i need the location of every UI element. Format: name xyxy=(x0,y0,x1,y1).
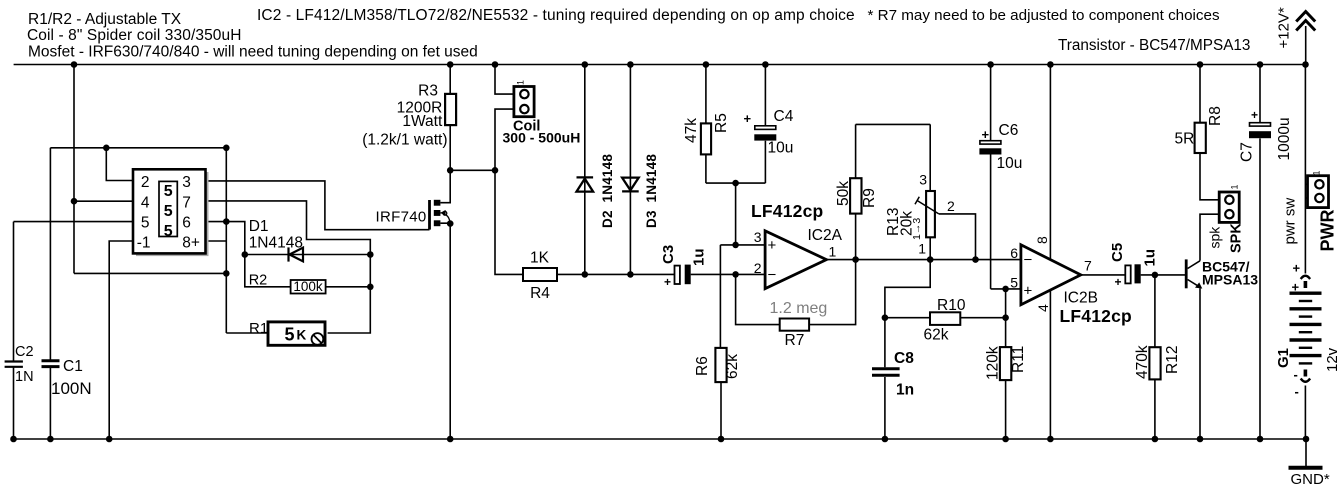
svg-text:2: 2 xyxy=(141,174,150,191)
wire R7 to output xyxy=(809,260,856,325)
svg-text:R1: R1 xyxy=(249,320,268,337)
wire collector to SPK xyxy=(1200,214,1219,261)
wire IC2B output xyxy=(1081,274,1126,276)
wire V1 vertical pin8 supply xyxy=(226,148,269,333)
svg-text:6: 6 xyxy=(1010,245,1018,261)
svg-text:R10: R10 xyxy=(937,297,966,314)
svg-text:pwr sw: pwr sw xyxy=(1282,198,1299,245)
wire pin6 node descent xyxy=(885,260,930,368)
svg-text:4: 4 xyxy=(1035,304,1051,312)
svg-text:1000u: 1000u xyxy=(1276,117,1293,160)
svg-text:2: 2 xyxy=(947,198,955,214)
wire C7 branch xyxy=(1259,65,1261,440)
svg-text:1n: 1n xyxy=(896,382,914,399)
resistor R5 xyxy=(701,123,711,154)
wire R9 riser xyxy=(856,124,931,259)
svg-text:+: + xyxy=(1115,275,1122,289)
svg-text:−: − xyxy=(768,267,777,284)
connector J3 PWR xyxy=(1308,176,1329,208)
connector J1 coil xyxy=(514,87,534,117)
svg-text:R3: R3 xyxy=(418,83,438,100)
wire R13 wiper to output row xyxy=(939,214,976,260)
wire IC2B pin4 ground xyxy=(1049,291,1051,439)
IC U1 555 inner label box xyxy=(159,181,177,236)
wire R10 right xyxy=(960,317,1005,319)
wire +12V top rail xyxy=(14,64,1306,66)
svg-text:+: + xyxy=(664,275,671,289)
resistor R9 xyxy=(850,178,861,213)
svg-text:R5: R5 xyxy=(713,113,730,133)
svg-text:+: + xyxy=(768,237,777,254)
svg-text:R2: R2 xyxy=(249,273,268,289)
capacitor C6 xyxy=(979,141,1001,155)
wire pin4 feed xyxy=(74,200,133,202)
capacitor C7 xyxy=(1249,123,1271,139)
svg-text:3: 3 xyxy=(754,229,762,245)
svg-text:−: − xyxy=(1024,252,1033,269)
wire R2 row xyxy=(245,255,370,287)
svg-text:-: - xyxy=(1295,384,1299,399)
svg-text:1: 1 xyxy=(516,80,526,85)
svg-text:3: 3 xyxy=(919,172,927,188)
svg-text:47k: 47k xyxy=(683,118,700,143)
svg-text:Transistor - BC547/MPSA13: Transistor - BC547/MPSA13 xyxy=(1058,37,1250,54)
svg-text:R1/R2 - Adjustable TX: R1/R2 - Adjustable TX xyxy=(28,11,182,28)
capacitor C1 xyxy=(42,361,60,367)
potentiometer R13 20k xyxy=(926,191,935,237)
wire battery to ground rail xyxy=(1304,386,1306,440)
svg-text:1: 1 xyxy=(918,241,926,257)
svg-text:C7: C7 xyxy=(1239,142,1256,162)
capacitor C3 xyxy=(675,265,691,285)
wire pin1 feed xyxy=(109,241,133,439)
wire pin6 feed to D1 node xyxy=(206,222,245,255)
wire C3 to pin2 xyxy=(691,273,765,275)
wire R6 to ground xyxy=(720,382,722,439)
svg-text:(1.2k/1 watt): (1.2k/1 watt) xyxy=(362,132,447,149)
wire R8 top xyxy=(1199,65,1201,123)
svg-text:K: K xyxy=(297,328,307,343)
svg-text:8: 8 xyxy=(1034,236,1050,244)
wire coil top feed xyxy=(495,65,514,95)
svg-text:5: 5 xyxy=(141,215,150,232)
svg-text:D1: D1 xyxy=(249,218,269,235)
wire R13 bottom xyxy=(929,237,931,259)
svg-text:+12V*: +12V* xyxy=(1276,7,1293,48)
svg-text:Coil - 8" Spider coil 330/350u: Coil - 8" Spider coil 330/350uH xyxy=(27,27,242,44)
svg-text:LF412cp: LF412cp xyxy=(751,201,823,221)
svg-text:SPK: SPK xyxy=(1229,223,1245,253)
svg-text:5: 5 xyxy=(164,223,173,240)
wire coil bottom drop to R4 xyxy=(495,109,523,274)
svg-text:R11: R11 xyxy=(1010,346,1027,373)
resistor R7 xyxy=(780,319,809,331)
wire R3 bottom to node xyxy=(449,125,451,170)
IC U1 555 timer shadow xyxy=(136,172,209,256)
connector J2 SPK xyxy=(1219,192,1239,222)
svg-text:IC2B: IC2B xyxy=(1064,290,1098,307)
wire R12 branch xyxy=(1154,275,1156,439)
svg-text:5: 5 xyxy=(164,183,173,200)
svg-text:D3 1N4148: D3 1N4148 xyxy=(644,154,659,228)
resistor R10 xyxy=(930,312,960,325)
svg-text:C3: C3 xyxy=(660,245,677,264)
op-amp IC2A xyxy=(765,231,826,289)
svg-text:C1: C1 xyxy=(63,358,83,375)
resistor R11 xyxy=(1000,347,1011,380)
battery G1 xyxy=(1290,293,1322,363)
svg-text:1: 1 xyxy=(1311,170,1321,175)
svg-text:6: 6 xyxy=(182,215,191,232)
resistor R8 xyxy=(1195,123,1206,153)
svg-text:2: 2 xyxy=(754,260,762,276)
svg-text:* R7 may need to be adjusted t: * R7 may need to be adjusted to componen… xyxy=(868,7,1220,24)
wire pin2 to R7 xyxy=(736,274,780,324)
svg-text:-: - xyxy=(1294,367,1298,382)
transistor Q2 BC547 xyxy=(1185,259,1203,288)
capacitor C8 xyxy=(872,369,900,375)
svg-text:GND*: GND* xyxy=(1291,471,1330,488)
wire mosfet source to ground xyxy=(441,223,451,439)
resistor R3 xyxy=(445,94,456,125)
svg-text:IRF740: IRF740 xyxy=(376,209,427,226)
ground symbol GND xyxy=(1289,439,1323,468)
svg-text:IC2A: IC2A xyxy=(808,227,843,244)
wire R5 branch xyxy=(706,65,766,184)
svg-text:120k: 120k xyxy=(985,346,1002,380)
svg-text:1.2 meg: 1.2 meg xyxy=(770,300,828,317)
wiper R13 xyxy=(915,197,939,214)
wire left +12V drop to pin4 and V1 link xyxy=(74,65,226,274)
svg-text:R7: R7 xyxy=(785,332,805,349)
svg-text:C6: C6 xyxy=(999,122,1019,139)
svg-text:C5: C5 xyxy=(1109,243,1126,262)
transistor Q1 IRF740 mosfet xyxy=(430,200,451,230)
wire PWR feed xyxy=(1305,65,1307,274)
svg-text:470k: 470k xyxy=(1134,345,1151,379)
junction dots bottom rail xyxy=(10,436,1309,443)
svg-text:300 - 500uH: 300 - 500uH xyxy=(503,130,581,146)
wire D3 vertical xyxy=(629,65,631,275)
svg-text:-1: -1 xyxy=(137,235,151,252)
wire pin5 feed and C2 riser xyxy=(14,222,134,439)
svg-text:10u: 10u xyxy=(768,140,794,157)
junction dots opamp area xyxy=(732,180,1158,321)
svg-text:spk: spk xyxy=(1207,226,1223,249)
svg-text:100N: 100N xyxy=(51,379,92,398)
svg-text:7: 7 xyxy=(182,194,191,211)
op-amp IC2B xyxy=(1021,245,1081,305)
svg-text:1u: 1u xyxy=(691,248,708,266)
diode D3 xyxy=(622,178,639,192)
svg-text:R4: R4 xyxy=(530,285,550,302)
svg-text:62k: 62k xyxy=(924,327,949,344)
wire emitter to ground xyxy=(1199,288,1201,439)
svg-text:R12: R12 xyxy=(1164,346,1181,374)
svg-text:+: + xyxy=(1024,283,1033,300)
svg-text:+: + xyxy=(1293,261,1301,276)
battery clip positive xyxy=(1301,276,1310,288)
capacitor C5 xyxy=(1125,264,1140,283)
resistor R4 xyxy=(523,268,557,281)
svg-text:C8: C8 xyxy=(894,350,914,367)
svg-text:IC2 - LF412/LM358/TLO72/82/NE5: IC2 - LF412/LM358/TLO72/82/NE5532 - tuni… xyxy=(257,7,855,24)
svg-text:5: 5 xyxy=(1010,275,1018,291)
wire C5 to base xyxy=(1141,274,1185,276)
svg-text:3: 3 xyxy=(182,174,191,191)
power symbol +12V xyxy=(1296,12,1315,65)
IC U1 555 timer body xyxy=(133,169,206,253)
svg-text:R8: R8 xyxy=(1207,106,1224,126)
wire ground bottom rail xyxy=(14,438,1307,440)
svg-text:1N4148: 1N4148 xyxy=(249,235,303,252)
wire R8 to SPK xyxy=(1200,153,1219,200)
resistor R6 xyxy=(715,348,726,382)
svg-text:5R: 5R xyxy=(1175,131,1195,148)
junction dots top rail xyxy=(71,61,1309,68)
capacitor C4 xyxy=(754,126,776,141)
svg-text:7: 7 xyxy=(1084,258,1092,274)
svg-text:1K: 1K xyxy=(530,250,550,267)
wire bias to pin3 xyxy=(720,183,765,348)
svg-text:50k: 50k xyxy=(835,181,852,206)
resistor R12 xyxy=(1149,347,1160,379)
diode D2 xyxy=(577,177,594,191)
battery clip negative xyxy=(1301,370,1310,382)
svg-text:100k: 100k xyxy=(293,279,323,294)
svg-text:LF412cp: LF412cp xyxy=(1060,306,1132,326)
svg-text:D2 1N4148: D2 1N4148 xyxy=(600,154,615,228)
svg-text:5: 5 xyxy=(285,325,295,345)
wire pin3 output to gate xyxy=(206,181,430,230)
wire R3 top xyxy=(449,65,451,94)
diode D1 xyxy=(289,247,304,261)
wire D1 row xyxy=(245,254,370,256)
svg-text:1u: 1u xyxy=(1142,249,1159,267)
svg-text:8+: 8+ xyxy=(182,235,200,252)
wire C1 riser and top link xyxy=(50,148,226,439)
resistor R2 100k xyxy=(291,280,326,294)
svg-text:62k: 62k xyxy=(724,354,741,379)
wire IC2A output row xyxy=(826,259,1021,261)
svg-text:C2: C2 xyxy=(15,344,34,360)
svg-text:C4: C4 xyxy=(774,108,794,125)
svg-text:1→3: 1→3 xyxy=(911,218,923,240)
wire mosfet drain xyxy=(441,170,451,202)
svg-text:Mosfet - IRF630/740/840 - will: Mosfet - IRF630/740/840 - will need tuni… xyxy=(28,44,478,61)
wire pin8 feed xyxy=(206,240,227,242)
svg-text:1: 1 xyxy=(1230,184,1240,189)
svg-text:1N: 1N xyxy=(15,369,34,385)
trimmer symbol R1 xyxy=(312,333,324,345)
wire R10 left xyxy=(885,317,930,319)
wire pin2 feed xyxy=(106,148,133,181)
wire IC2B pin8 supply xyxy=(1049,65,1051,259)
svg-text:R6: R6 xyxy=(694,356,711,376)
svg-text:+: + xyxy=(1251,108,1258,122)
svg-text:10u: 10u xyxy=(997,155,1023,172)
svg-text:G1: G1 xyxy=(1275,348,1292,368)
svg-text:12v: 12v xyxy=(1324,347,1340,372)
svg-text:5: 5 xyxy=(164,203,173,220)
wire R11 branch xyxy=(1005,318,1007,439)
wire C6 branch xyxy=(990,65,992,289)
capacitor C2 xyxy=(5,362,23,367)
svg-text:R9: R9 xyxy=(861,188,878,208)
junction dots 555 area xyxy=(71,145,374,291)
wire D2 vertical xyxy=(584,65,586,275)
wire pin5 node xyxy=(991,289,1021,318)
svg-text:MPSA13: MPSA13 xyxy=(1202,272,1258,288)
wire C8 to ground xyxy=(884,377,886,439)
svg-text:4: 4 xyxy=(141,194,150,211)
svg-text:PWR: PWR xyxy=(1318,210,1338,252)
wire C4 branch xyxy=(764,65,766,184)
wire drain node link xyxy=(450,169,495,171)
potentiometer R1 5K xyxy=(268,322,325,345)
svg-text:+: + xyxy=(982,127,990,142)
svg-text:+: + xyxy=(744,111,752,126)
svg-text:1: 1 xyxy=(829,244,837,260)
wire pin7 path to discharge node xyxy=(206,201,371,333)
wire R4 to C3 xyxy=(557,273,675,275)
svg-text:1Watt: 1Watt xyxy=(402,113,443,130)
junction dots mosfet area xyxy=(447,167,634,278)
